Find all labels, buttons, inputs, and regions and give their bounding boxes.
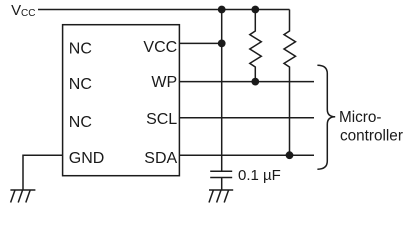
junction node: R2 to SDA wire bbox=[286, 151, 294, 159]
svg-text:NC: NC bbox=[69, 41, 92, 58]
resistor R2 (pull-up on SDA) with leads bbox=[284, 10, 296, 156]
wire pin VCC to Vcc branch bbox=[179, 42, 221, 44]
wire pin SDA to microcontroller bbox=[179, 154, 314, 156]
brace grouping WP SCL SDA to microcontroller bbox=[317, 65, 335, 169]
svg-text:VCC: VCC bbox=[143, 39, 177, 56]
junction node: VCC pin wire bbox=[218, 40, 226, 48]
wire pin GND to ground bbox=[23, 155, 63, 190]
svg-text:0.1 µF: 0.1 µF bbox=[238, 167, 281, 184]
IC U1 (EEPROM) body bbox=[63, 25, 180, 176]
svg-text:WP: WP bbox=[151, 74, 177, 91]
svg-text:CC: CC bbox=[21, 8, 35, 19]
svg-text:controller: controller bbox=[340, 127, 403, 144]
net label Vcc bbox=[11, 2, 35, 19]
svg-text:NC: NC bbox=[69, 76, 92, 93]
label Micro-controller bbox=[339, 109, 403, 144]
svg-text:Micro-: Micro- bbox=[339, 109, 382, 126]
wire pin WP to microcontroller bbox=[179, 81, 314, 83]
wire pin SCL to microcontroller bbox=[179, 117, 314, 119]
ground symbol at capacitor bbox=[209, 190, 233, 203]
ground symbol at GND pin bbox=[10, 190, 35, 203]
svg-text:V: V bbox=[11, 2, 21, 19]
junction node: Vcc rail to VCC-pin branch bbox=[218, 6, 226, 14]
junction node: R1 to WP wire bbox=[251, 78, 259, 86]
svg-text:SCL: SCL bbox=[146, 111, 177, 128]
junction node: Vcc rail to R1 bbox=[251, 6, 259, 14]
wire Vcc vertical branch to VCC pin and decoupling capacitor bbox=[221, 10, 223, 172]
capacitor C1 0.1uF plates bbox=[210, 171, 232, 189]
resistor R1 (pull-up on WP) with leads bbox=[250, 10, 261, 82]
svg-text:GND: GND bbox=[69, 150, 105, 167]
svg-text:SDA: SDA bbox=[144, 150, 177, 167]
svg-text:NC: NC bbox=[69, 114, 92, 131]
wire Vcc supply rail bbox=[38, 9, 290, 11]
